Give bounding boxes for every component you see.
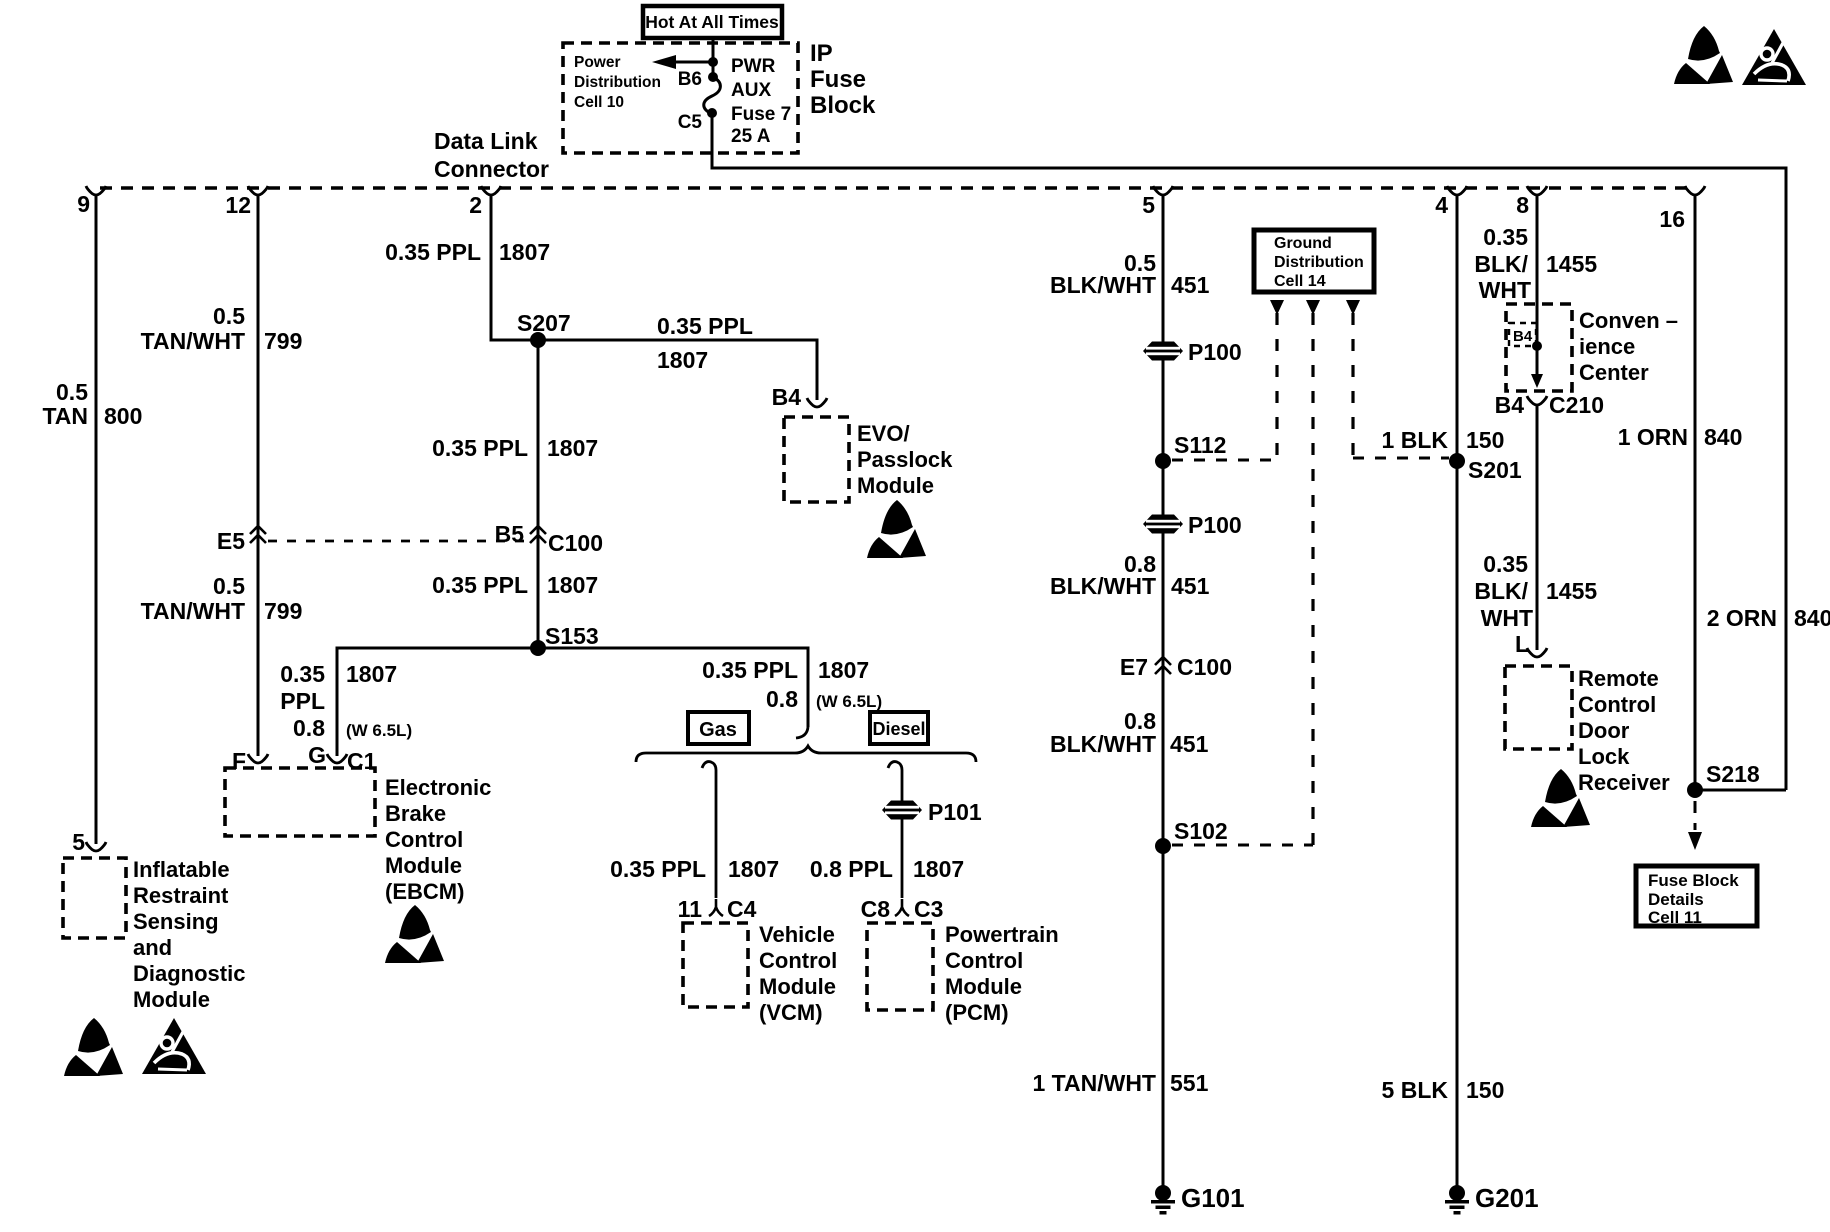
dashed drop 3: [1351, 313, 1354, 458]
fuse F7 element: [704, 77, 721, 114]
svg-text:TAN: TAN: [42, 403, 88, 429]
wire pin4 to G201: [1456, 196, 1459, 1186]
svg-text:Module: Module: [133, 987, 210, 1012]
svg-text:Control: Control: [945, 948, 1023, 973]
svg-text:EVO/: EVO/: [857, 421, 910, 446]
RCDLR box: [1505, 666, 1572, 749]
splice S153: [530, 640, 546, 656]
svg-text:(PCM): (PCM): [945, 1000, 1009, 1025]
svg-text:S153: S153: [545, 623, 599, 649]
svg-text:BLK/WHT: BLK/WHT: [1050, 573, 1156, 599]
svg-text:0.35 PPL: 0.35 PPL: [432, 572, 528, 598]
svg-text:Cell 14: Cell 14: [1274, 273, 1326, 290]
svg-text:8: 8: [1516, 192, 1529, 218]
power feed wire from fuse block: [712, 38, 715, 77]
ground G201: [1445, 1185, 1469, 1215]
svg-text:Diagnostic: Diagnostic: [133, 961, 245, 986]
svg-text:Details: Details: [1648, 890, 1704, 909]
svg-text:4: 4: [1435, 192, 1448, 218]
svg-text:1807: 1807: [346, 661, 397, 687]
dashed wire to S201: [1353, 457, 1449, 460]
svg-text:B4: B4: [1495, 392, 1525, 418]
svg-text:Electronic: Electronic: [385, 775, 491, 800]
svg-text:0.5: 0.5: [213, 303, 245, 329]
svg-text:C1: C1: [347, 748, 377, 774]
svg-text:B5: B5: [495, 521, 525, 547]
svg-text:551: 551: [1170, 1070, 1209, 1096]
svg-text:5 BLK: 5 BLK: [1382, 1077, 1449, 1103]
svg-text:2: 2: [469, 192, 482, 218]
dot in convenience center: [1532, 341, 1542, 351]
svg-text:Control: Control: [385, 827, 463, 852]
wire S153 to EBCM G/C1: [337, 648, 538, 756]
svg-text:1 BLK: 1 BLK: [1382, 427, 1449, 453]
svg-text:C4: C4: [727, 896, 757, 922]
svg-text:Lock: Lock: [1578, 744, 1630, 769]
svg-text:P100: P100: [1188, 339, 1242, 365]
svg-text:Module: Module: [857, 473, 934, 498]
splice S207: [530, 332, 546, 348]
svg-text:Cell 11: Cell 11: [1648, 908, 1702, 927]
wire feed joins S218: [1695, 789, 1786, 792]
svg-text:Cell 10: Cell 10: [574, 94, 624, 111]
svg-text:S201: S201: [1468, 457, 1522, 483]
ESD symbol top right: [1674, 26, 1733, 84]
svg-text:25 A: 25 A: [731, 126, 771, 147]
svg-text:Fuse Block: Fuse Block: [1648, 871, 1739, 890]
svg-text:Powertrain: Powertrain: [945, 922, 1059, 947]
svg-text:1807: 1807: [547, 572, 598, 598]
svg-text:1807: 1807: [818, 657, 869, 683]
svg-text:(VCM): (VCM): [759, 1000, 823, 1025]
ESD symbol EVO: [867, 500, 926, 558]
ESD symbol EBCM: [385, 905, 444, 963]
svg-text:Module: Module: [385, 853, 462, 878]
VCM box: [683, 923, 748, 1007]
svg-text:Block: Block: [810, 92, 876, 119]
svg-text:TAN/WHT: TAN/WHT: [141, 598, 245, 624]
svg-text:Fuse 7: Fuse 7: [731, 104, 791, 125]
pin F of EBCM: [248, 754, 268, 763]
svg-text:(W 6.5L): (W 6.5L): [346, 721, 412, 740]
wire S207 to S153: [537, 340, 540, 648]
svg-text:0.5: 0.5: [56, 379, 88, 405]
pin 8: [1527, 186, 1547, 195]
svg-text:C3: C3: [914, 896, 943, 922]
connector B5 C100: [530, 526, 546, 543]
svg-text:B4: B4: [772, 384, 802, 410]
svg-text:ience: ience: [1579, 334, 1635, 359]
ground distribution arrow 3: [1346, 300, 1360, 315]
svg-text:Ground: Ground: [1274, 235, 1332, 252]
svg-text:Connector: Connector: [434, 156, 549, 182]
svg-text:S102: S102: [1174, 818, 1228, 844]
pin L of RCDLR: [1527, 648, 1547, 657]
svg-text:Diesel: Diesel: [872, 719, 925, 739]
svg-text:G: G: [308, 742, 326, 768]
dashed wire E5 to B5: [268, 540, 527, 543]
IP fuse block dashed box: [563, 43, 798, 153]
wire diesel drop to PCM: [888, 762, 902, 898]
svg-text:1807: 1807: [499, 239, 550, 265]
inflatable restraint SDM box: [63, 858, 126, 938]
svg-text:G201: G201: [1475, 1183, 1539, 1213]
connector E7 C100: [1155, 657, 1171, 674]
svg-text:Brake: Brake: [385, 801, 446, 826]
svg-text:Power: Power: [574, 54, 621, 71]
svg-text:1455: 1455: [1546, 578, 1597, 604]
svg-text:BLK/: BLK/: [1474, 578, 1528, 604]
Fuse Block Details Cell 11 box: [1636, 866, 1757, 926]
svg-text:0.35 PPL: 0.35 PPL: [657, 313, 753, 339]
svg-text:C100: C100: [1177, 654, 1232, 680]
splice S201: [1449, 453, 1465, 469]
wire gas drop to VCM: [702, 762, 716, 898]
svg-text:0.5: 0.5: [213, 573, 245, 599]
pin 4: [1447, 186, 1467, 195]
svg-text:E5: E5: [217, 528, 245, 554]
grommet P100 lower: [1143, 515, 1183, 534]
svg-text:IP: IP: [810, 40, 833, 67]
svg-text:150: 150: [1466, 1077, 1504, 1103]
svg-text:BLK/: BLK/: [1474, 251, 1528, 277]
data link connector dashed line: [100, 186, 1687, 189]
pin 16: [1685, 186, 1705, 195]
svg-text:0.35 PPL: 0.35 PPL: [432, 435, 528, 461]
SIR symbol: [142, 1018, 206, 1074]
svg-text:5: 5: [72, 829, 85, 855]
svg-text:150: 150: [1466, 427, 1504, 453]
dashed drop 2: [1311, 313, 1314, 845]
svg-text:Module: Module: [945, 974, 1022, 999]
svg-text:P100: P100: [1188, 512, 1242, 538]
svg-text:C210: C210: [1549, 392, 1604, 418]
SIR symbol top right: [1742, 29, 1806, 85]
svg-text:Fuse: Fuse: [810, 66, 866, 93]
pin 9: [86, 186, 106, 195]
svg-text:PPL: PPL: [280, 688, 325, 714]
svg-text:16: 16: [1659, 206, 1685, 232]
svg-text:1807: 1807: [657, 347, 708, 373]
svg-text:451: 451: [1170, 731, 1209, 757]
EVO/Passlock module box: [784, 417, 849, 502]
svg-text:(EBCM): (EBCM): [385, 879, 464, 904]
EBCM box: [225, 768, 375, 836]
PCM box: [867, 923, 933, 1010]
svg-text:Gas: Gas: [699, 719, 737, 741]
dashed drop 1: [1275, 313, 1278, 460]
svg-text:Inflatable: Inflatable: [133, 857, 230, 882]
svg-text:Module: Module: [759, 974, 836, 999]
junction dot top: [708, 57, 718, 67]
svg-text:S112: S112: [1174, 432, 1226, 458]
svg-text:S207: S207: [517, 310, 571, 336]
pin 5: [1153, 186, 1173, 195]
convenience center box: [1506, 304, 1572, 391]
svg-text:1807: 1807: [913, 856, 964, 882]
svg-text:5: 5: [1142, 192, 1155, 218]
svg-text:451: 451: [1171, 272, 1210, 298]
svg-text:Sensing: Sensing: [133, 909, 219, 934]
svg-text:(W 6.5L): (W 6.5L): [816, 692, 882, 711]
terminal dot B6: [708, 72, 718, 82]
svg-text:Control: Control: [1578, 692, 1656, 717]
svg-text:1807: 1807: [728, 856, 779, 882]
Hot At All Times box: [643, 6, 782, 38]
svg-text:1807: 1807: [547, 435, 598, 461]
pin 5 of SDM: [86, 842, 106, 851]
wire C210 to RCDLR: [1536, 406, 1539, 650]
pin C8 C3 of PCM: [895, 899, 909, 916]
svg-text:11: 11: [678, 896, 703, 922]
svg-text:0.35: 0.35: [1483, 224, 1528, 250]
svg-text:840: 840: [1794, 605, 1830, 631]
svg-text:S218: S218: [1706, 761, 1760, 787]
svg-text:0.35: 0.35: [1483, 551, 1528, 577]
svg-text:1455: 1455: [1546, 251, 1597, 277]
wire pin8 to convenience center: [1536, 196, 1539, 346]
wire end hook: [796, 727, 808, 738]
connector B4 C210: [1527, 396, 1547, 405]
svg-text:Passlock: Passlock: [857, 447, 953, 472]
svg-text:1 TAN/WHT: 1 TAN/WHT: [1032, 1070, 1156, 1096]
svg-text:9: 9: [77, 191, 90, 217]
svg-text:Center: Center: [1579, 360, 1649, 385]
svg-text:Door: Door: [1578, 718, 1630, 743]
svg-text:Restraint: Restraint: [133, 883, 229, 908]
svg-text:L: L: [1515, 631, 1529, 657]
wire pin9 to SDM: [95, 196, 98, 844]
ground distribution arrow 1: [1270, 300, 1284, 315]
svg-text:840: 840: [1704, 424, 1742, 450]
svg-text:Hot At All Times: Hot At All Times: [645, 12, 779, 32]
svg-text:BLK/WHT: BLK/WHT: [1050, 731, 1156, 757]
svg-text:800: 800: [104, 403, 142, 429]
wire pin16 to S218: [1694, 196, 1697, 790]
wire C5 to bus and right feed down: [712, 113, 1786, 790]
Diesel box: [870, 712, 928, 744]
svg-text:and: and: [133, 935, 172, 960]
svg-text:E7: E7: [1120, 654, 1148, 680]
svg-text:BLK/WHT: BLK/WHT: [1050, 272, 1156, 298]
svg-text:0.8: 0.8: [293, 715, 325, 741]
svg-text:12: 12: [225, 192, 251, 218]
svg-text:PWR: PWR: [731, 56, 776, 77]
svg-text:TAN/WHT: TAN/WHT: [141, 328, 245, 354]
svg-text:C100: C100: [548, 530, 603, 556]
dashed arrow S218 to fuse block details: [1694, 801, 1697, 830]
svg-text:0.8: 0.8: [766, 686, 798, 712]
wire pin5 to G101: [1162, 196, 1165, 1186]
svg-text:C5: C5: [678, 112, 703, 133]
svg-text:Distribution: Distribution: [574, 74, 661, 91]
pin B4 of EVO: [807, 398, 827, 407]
svg-text:Remote: Remote: [1578, 666, 1659, 691]
svg-text:799: 799: [264, 328, 302, 354]
splice S218: [1687, 782, 1703, 798]
grommet P101: [882, 801, 922, 820]
ESD symbol RCDLR: [1531, 769, 1590, 827]
ground G101: [1151, 1185, 1175, 1215]
svg-text:G101: G101: [1181, 1183, 1245, 1213]
ESD symbol: [64, 1018, 123, 1076]
svg-text:0.35: 0.35: [280, 661, 325, 687]
wire S207 to B4 EVO: [538, 340, 817, 400]
svg-text:B6: B6: [678, 69, 702, 90]
dashed wire S102 to ground distribution: [1172, 844, 1313, 847]
svg-text:1 ORN: 1 ORN: [1618, 424, 1688, 450]
pin 2: [481, 186, 501, 195]
arrow in convenience center: [1536, 346, 1539, 374]
svg-text:799: 799: [264, 598, 302, 624]
svg-text:AUX: AUX: [731, 80, 771, 101]
svg-text:451: 451: [1171, 573, 1210, 599]
svg-text:WHT: WHT: [1479, 277, 1531, 303]
wire pin2 to S207: [491, 196, 538, 340]
pin 11 C4 of VCM: [709, 899, 723, 916]
dashed wire S112 to ground distribution: [1172, 459, 1277, 462]
ground distribution arrow 2: [1306, 300, 1320, 315]
fuse B4 inner box: [1509, 323, 1536, 346]
splice S112: [1155, 453, 1171, 469]
svg-text:Distribution: Distribution: [1274, 254, 1364, 271]
svg-text:0.35 PPL: 0.35 PPL: [385, 239, 481, 265]
svg-text:WHT: WHT: [1481, 605, 1533, 631]
svg-text:P101: P101: [928, 799, 982, 825]
arrow to power distribution: [674, 61, 713, 64]
wire S153 right branch: [538, 648, 808, 727]
svg-text:Conven –: Conven –: [1579, 308, 1678, 333]
brace: [636, 746, 976, 762]
svg-text:Control: Control: [759, 948, 837, 973]
pin G C1 of EBCM: [327, 754, 347, 763]
connector E5: [250, 526, 266, 543]
svg-text:0.8 PPL: 0.8 PPL: [810, 856, 893, 882]
svg-text:F: F: [232, 748, 246, 774]
svg-text:Receiver: Receiver: [1578, 770, 1670, 795]
Ground Distribution Cell 14 box: [1254, 230, 1374, 292]
svg-text:0.35 PPL: 0.35 PPL: [610, 856, 706, 882]
svg-text:Vehicle: Vehicle: [759, 922, 835, 947]
grommet P100 upper: [1143, 342, 1183, 361]
svg-text:Data Link: Data Link: [434, 128, 538, 154]
Gas box: [688, 712, 749, 744]
svg-text:C8: C8: [861, 896, 891, 922]
wire pin12 to EBCM F: [257, 196, 260, 756]
svg-text:B4: B4: [1513, 328, 1533, 345]
pin 12: [248, 186, 268, 195]
svg-text:0.35 PPL: 0.35 PPL: [702, 657, 798, 683]
svg-text:2 ORN: 2 ORN: [1707, 605, 1777, 631]
terminal dot C5: [707, 108, 717, 118]
splice S102: [1155, 838, 1171, 854]
